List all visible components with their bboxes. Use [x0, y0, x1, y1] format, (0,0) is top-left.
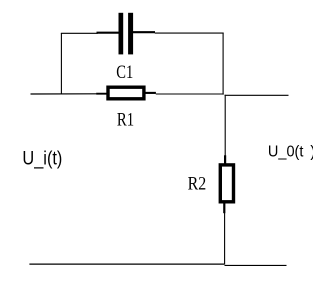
resistor R1 left lead	[96, 93, 107, 95]
wire: node down to R2	[224, 95, 226, 156]
wire: output horizontal right	[225, 94, 289, 96]
svg-text:U_i(t): U_i(t)	[22, 149, 62, 170]
wire: right loop vertical down	[222, 33, 224, 95]
wire: top-right horizontal	[155, 32, 224, 34]
wire: top-left horizontal to C1	[61, 32, 98, 34]
svg-text:R1: R1	[117, 111, 134, 131]
svg-text:): )	[310, 143, 313, 160]
capacitor C1 left lead	[97, 32, 119, 34]
wire: R1 to node horizontal	[156, 93, 224, 95]
resistor R1 right lead	[145, 92, 156, 94]
capacitor C1 right lead	[133, 31, 155, 33]
wire: input left horizontal	[31, 93, 97, 95]
wire: R2 down to bottom rail	[224, 213, 226, 265]
resistor R2 body	[220, 165, 233, 202]
resistor R1 body	[108, 87, 144, 99]
wire: bottom rail right	[225, 264, 287, 266]
svg-text:R2: R2	[188, 175, 207, 195]
wire: left branch vertical	[60, 33, 62, 94]
wire: bottom rail left	[29, 263, 224, 265]
resistor R2 bottom lead	[223, 203, 225, 213]
svg-text:U_0(t: U_0(t	[268, 143, 304, 160]
svg-text:C1: C1	[116, 63, 133, 83]
resistor R2 top lead	[224, 155, 226, 163]
capacitor C1 plate left	[119, 13, 124, 55]
capacitor C1 plate right	[128, 13, 133, 55]
